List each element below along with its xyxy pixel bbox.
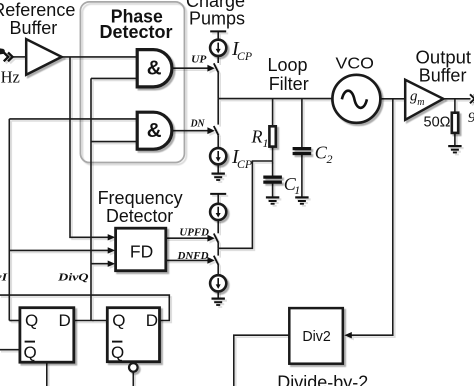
ground under I2 [212, 174, 225, 180]
wire R1 bottom to C1 [272, 147, 274, 176]
svg-text:Q: Q [112, 311, 125, 330]
svg-text:2: 2 [327, 152, 333, 166]
svg-text:50Ω: 50Ω [424, 115, 451, 131]
svg-text:9: 9 [468, 110, 474, 126]
wire node down to switch S4 [217, 248, 219, 255]
wire FF1 clock [46, 362, 48, 386]
wire DivI vertical rail [8, 119, 10, 321]
wire buffer output to AND U1 input A [62, 56, 138, 58]
output port chevrons [470, 94, 474, 103]
charge pump current sink I2 [210, 148, 226, 164]
wire DivQ vertical rail [90, 78, 92, 320]
Div2 box [289, 308, 343, 364]
svg-text:Filter: Filter [269, 74, 309, 94]
vdd rail bar 2 [210, 193, 226, 195]
FF2 inverted clock bubble [129, 363, 138, 372]
wire control node rail to VCO [218, 98, 332, 100]
wire C2 top [301, 99, 303, 147]
wire node down to switch S2 [217, 99, 219, 125]
svg-text:m: m [417, 97, 424, 108]
svg-text:R: R [251, 127, 263, 147]
svg-text:Detector: Detector [106, 206, 173, 226]
vdd rail bar 1 [210, 30, 226, 32]
arrowhead DNFD [207, 257, 214, 264]
svg-text:FD: FD [130, 241, 153, 261]
svg-text:Buffer: Buffer [10, 18, 58, 38]
arrowhead FD input 2 [108, 247, 116, 253]
wire feedback tap to Div2 [349, 99, 393, 335]
svg-text:Q: Q [24, 343, 37, 362]
wire ref branch vertical to FD input 1 [70, 57, 109, 237]
svg-text:DNFD: DNFD [176, 251, 208, 262]
svg-text:&: & [147, 57, 162, 80]
wire output buffer to port [443, 98, 470, 100]
svg-text:Divide-by-2: Divide-by-2 [277, 373, 368, 386]
capacitor C1 plates [263, 177, 282, 182]
svg-text:Loop: Loop [267, 55, 307, 75]
wire FF1 Qbar out [0, 349, 20, 351]
resistor R1 body [269, 126, 275, 146]
svg-text:D: D [59, 311, 71, 330]
arrowhead FD input 3 [108, 261, 116, 267]
charge pump current source I3 [210, 204, 226, 220]
AND gate U1 [137, 50, 172, 87]
switch S4 lever (DNFD) [214, 256, 219, 265]
svg-text:DN: DN [190, 119, 206, 130]
wire C2 to ground [301, 155, 303, 197]
wire VDD stub to charge pump I1 [217, 31, 219, 40]
svg-text:UPFD: UPFD [179, 227, 209, 238]
wire C1 to ground [272, 184, 274, 197]
wire S4 to sink I4 [217, 265, 219, 275]
wire S1 to loop filter node [217, 73, 219, 99]
wire FF1 D to FF2 Q [74, 320, 108, 322]
wire I4 to ground [217, 291, 219, 298]
svg-text:Q: Q [25, 311, 38, 330]
phase detector boundary box [80, 2, 184, 163]
flip-flop FF2 box [107, 308, 159, 362]
svg-text:Buffer: Buffer [419, 65, 467, 85]
svg-text:Frequency: Frequency [98, 188, 183, 208]
svg-text:Detector: Detector [99, 22, 172, 42]
arrowhead Div2 input [344, 332, 352, 338]
wire VCO to output buffer [380, 98, 405, 100]
svg-text:1: 1 [294, 183, 300, 197]
svg-text:Hz: Hz [1, 68, 20, 87]
arrowhead DN [207, 127, 214, 134]
ground under C2 [295, 197, 308, 203]
svg-text:DivQ: DivQ [57, 272, 89, 283]
svg-text:D: D [146, 311, 158, 330]
ground under I4 [212, 299, 225, 305]
wire FF2 clock below bubble [132, 372, 134, 386]
charge pump current source I1 [210, 40, 226, 56]
svg-text:Q: Q [111, 343, 124, 362]
wire Div2 output [234, 335, 289, 386]
switch S2 lever (DN) [214, 126, 219, 135]
capacitor C2 plates [293, 149, 312, 154]
wire FD pumps output to R1-C1 node [218, 161, 272, 248]
ground under C1 [266, 197, 279, 203]
wire VDD stub to pump I3 [217, 194, 219, 204]
output buffer amp [405, 80, 443, 120]
arrowhead FD input 1 [108, 234, 116, 240]
wire I1 to switch S1 [217, 56, 219, 63]
svg-text:Output: Output [416, 47, 472, 67]
ground under load [448, 146, 461, 152]
arrowhead UPFD [207, 235, 214, 242]
VCO circle with sine [332, 75, 380, 123]
wire S3 to node [217, 243, 219, 249]
wire FD input 3 (DivQ) [91, 263, 109, 265]
switch S3 lever (UPFD) [214, 234, 219, 243]
svg-text:Div2: Div2 [302, 329, 331, 345]
svg-text:UP: UP [191, 55, 207, 66]
svg-text:CP: CP [237, 157, 252, 171]
arrowhead UP [207, 65, 214, 72]
wire ref input [13, 56, 27, 58]
label f fragment [0, 48, 5, 54]
svg-text:Reference: Reference [0, 0, 75, 20]
wire DN signal [172, 130, 209, 132]
FD box [116, 228, 166, 271]
flip-flop FF1 box [20, 308, 74, 363]
wire 50ohm load to ground [454, 133, 456, 146]
svg-text:Pumps: Pumps [189, 9, 245, 29]
wire I3 to switch S3 [217, 220, 219, 233]
svg-text:VCO: VCO [336, 56, 374, 73]
wire FD input 2 (DivI) [9, 249, 109, 251]
wire UPFD signal [166, 237, 209, 239]
wire AND U2 input B [91, 141, 137, 143]
AND gate U2 [137, 112, 172, 149]
wire I2 to ground [217, 164, 219, 173]
charge pump current sink I4 [210, 275, 226, 291]
wire FF2 D feedback [0, 295, 169, 320]
reference buffer amp [26, 39, 61, 75]
wire AND U1 input B [91, 77, 137, 79]
switch S1 lever (UP) [214, 63, 219, 72]
wire FF1 Q to DivI rail [9, 320, 20, 322]
wire S2 to current sink I2 [217, 135, 219, 148]
wire 50ohm load top [454, 99, 456, 113]
wire DNFD signal [166, 259, 209, 261]
wire UP signal [172, 67, 209, 69]
input port chevrons [4, 53, 13, 62]
wire DivI horizontal to AND U2 input A [9, 118, 137, 120]
wire R1 top [272, 99, 274, 127]
50 ohm resistor body [452, 113, 458, 133]
svg-text:1: 1 [263, 136, 269, 150]
svg-text:CP: CP [237, 49, 252, 63]
svg-text:&: & [147, 119, 162, 142]
